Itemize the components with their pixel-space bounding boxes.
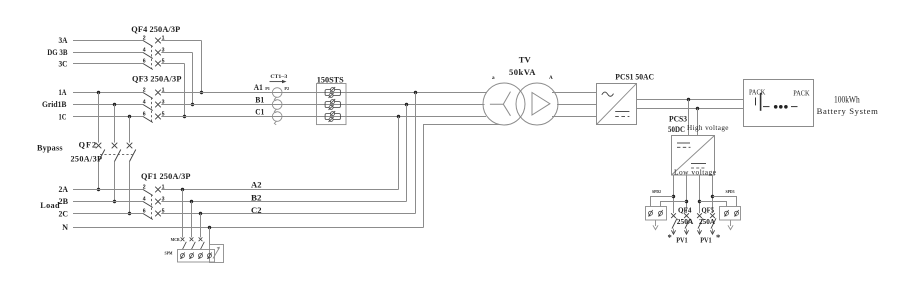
svg-text:3: 3 xyxy=(162,196,165,202)
svg-text:5: 5 xyxy=(162,111,165,117)
breaker QF1 link (dashed) xyxy=(151,195,153,219)
wire 3B left segment xyxy=(73,52,143,54)
wire 3A left segment xyxy=(73,40,143,42)
wire DC- drop to PCS3 xyxy=(697,109,699,136)
svg-text:2: 2 xyxy=(143,87,146,93)
wire 1B left segment xyxy=(73,104,143,106)
breaker QF4 link (dashed) xyxy=(151,46,153,69)
svg-text:6: 6 xyxy=(143,208,146,214)
svg-text:QF4: QF4 xyxy=(678,206,692,214)
PV feeder 3 with breaker pole and arrow xyxy=(697,175,703,234)
wire xfmr-PCS1 A xyxy=(552,92,597,94)
breaker QF1 pole 2-1 xyxy=(143,184,165,195)
wire SPD3 terminal 2 xyxy=(700,202,727,207)
svg-text:SPD2: SPD2 xyxy=(652,190,661,194)
svg-text:a: a xyxy=(492,75,495,81)
svg-text:C2: C2 xyxy=(251,206,262,215)
svg-text:QF2: QF2 xyxy=(79,141,97,150)
wire 1A left segment xyxy=(73,92,143,94)
junction bypass tap on 1C xyxy=(128,115,131,118)
earthing box xyxy=(210,245,224,263)
svg-text:PCS3: PCS3 xyxy=(669,114,687,123)
wire N drop to earth box xyxy=(209,228,211,245)
svg-text:1C: 1C xyxy=(59,113,67,122)
wire xfmr-PCS1 C xyxy=(552,116,597,118)
breaker QF3 pole 4-3 xyxy=(143,99,165,110)
breaker QF3 pole 6-5 xyxy=(143,111,165,122)
wire SPD3 terminal 1 xyxy=(713,197,737,207)
wire SPD2 terminal 2 xyxy=(661,202,687,207)
junction bypass tap on 1A xyxy=(97,91,100,94)
breaker QF4 pole 6-5 xyxy=(143,58,165,69)
junction tap on 1C xyxy=(397,115,400,118)
STS box xyxy=(317,84,347,125)
svg-text:A2: A2 xyxy=(251,180,262,189)
svg-text:SPM: SPM xyxy=(165,252,173,256)
breaker QF4 pole 2-1 xyxy=(143,35,165,46)
wire SPD2 terminal 1 xyxy=(651,197,674,207)
breaker QF2 link (dashed) xyxy=(100,154,133,156)
breaker QF2 pole 2 (vertical) xyxy=(112,105,121,204)
battery cell symbol xyxy=(756,93,770,111)
svg-text:P2: P2 xyxy=(284,86,289,91)
svg-text:3C: 3C xyxy=(59,59,68,68)
svg-text:*: * xyxy=(668,232,672,242)
svg-text:Battery System: Battery System xyxy=(817,106,879,116)
SPD3 box with arresters xyxy=(720,207,741,221)
wire QF4 drop A xyxy=(201,41,203,93)
wire 1C after QF3 to transformer xyxy=(161,116,486,118)
CT on phase B xyxy=(272,100,282,113)
battery box xyxy=(744,80,814,127)
svg-text:PCS1 50AC: PCS1 50AC xyxy=(615,72,654,81)
svg-text:P1: P1 xyxy=(265,86,270,91)
svg-text:B1: B1 xyxy=(255,95,264,104)
junction DC+ tap xyxy=(687,98,690,101)
svg-text:2C: 2C xyxy=(59,209,69,218)
svg-text:3: 3 xyxy=(162,99,165,105)
svg-text:4: 4 xyxy=(143,99,146,105)
CT on phase A xyxy=(272,88,282,101)
wire drop from 1A to 2C end xyxy=(415,93,417,214)
svg-text:N: N xyxy=(62,223,68,232)
junction QF4-B on 1B xyxy=(191,103,194,106)
wire neutral riser from transformer to N xyxy=(424,125,501,228)
svg-text:PV1: PV1 xyxy=(676,235,688,244)
ground arrow below SPD3 xyxy=(728,220,733,230)
wire 2A after QF1 xyxy=(161,189,398,191)
junction tap on 1B xyxy=(405,103,408,106)
wire 2C after QF1 xyxy=(161,213,415,215)
wire 2B after QF1 xyxy=(161,201,406,203)
wire QF4 drop C xyxy=(184,64,186,117)
svg-text:SPD3: SPD3 xyxy=(726,190,735,194)
wire 2C left segment xyxy=(73,213,143,215)
svg-text:3A: 3A xyxy=(59,36,68,45)
svg-text:2: 2 xyxy=(143,184,146,190)
junction QF4-A on 1A xyxy=(200,91,203,94)
svg-text:6: 6 xyxy=(143,58,146,64)
svg-text:6: 6 xyxy=(143,111,146,117)
svg-text:50kVA: 50kVA xyxy=(509,67,536,77)
svg-text:MCB: MCB xyxy=(171,238,180,242)
wire QF4 drop B xyxy=(192,53,194,105)
junction bypass tap on 1B xyxy=(113,103,116,106)
battery end dash xyxy=(791,106,798,108)
transformer TV primary circle (wye) xyxy=(483,83,525,125)
PV feeder 4 with breaker pole and arrow xyxy=(710,175,716,234)
svg-text:High voltage: High voltage xyxy=(687,124,729,132)
PV feeder 1 with breaker pole and arrow xyxy=(671,175,677,234)
svg-text:4: 4 xyxy=(143,47,146,53)
svg-text:PACK: PACK xyxy=(793,88,810,97)
svg-text:2: 2 xyxy=(143,35,146,41)
transformer TV secondary circle (delta) xyxy=(516,83,558,125)
svg-text:QF4 250A/3P: QF4 250A/3P xyxy=(131,25,180,34)
wire 2A left segment xyxy=(73,189,143,191)
breaker QF3 link (dashed) xyxy=(151,98,153,122)
svg-text:QF1 250A/3P: QF1 250A/3P xyxy=(141,172,191,181)
wire xfmr-PCS1 B xyxy=(557,104,597,106)
wire QF4 out C to corner xyxy=(161,63,184,65)
breaker QF3 pole 2-1 xyxy=(143,87,165,98)
svg-text:2A: 2A xyxy=(59,185,69,194)
wire DC+ drop to PCS3 xyxy=(688,100,690,136)
MCB pole 3 from load phase xyxy=(199,212,205,250)
converter PCS3 box xyxy=(672,136,715,176)
wire 3C left segment xyxy=(73,63,143,65)
svg-text:PACK: PACK xyxy=(749,87,766,96)
svg-text:Low voltage: Low voltage xyxy=(674,168,717,177)
svg-text:4: 4 xyxy=(143,196,146,202)
wire DC+ PCS1 to battery xyxy=(637,99,744,101)
wire drop from 1B to 2B end xyxy=(406,105,408,202)
svg-text:250A/3P: 250A/3P xyxy=(71,154,103,163)
wire 1B after QF3 to transformer xyxy=(161,104,484,106)
CT on phase C xyxy=(272,112,282,125)
wire QF4 out B to corner xyxy=(161,52,192,54)
svg-text:TV: TV xyxy=(519,55,532,65)
svg-text:A: A xyxy=(549,75,553,81)
svg-text:1: 1 xyxy=(162,87,165,93)
STS thyristor pair phase A xyxy=(325,87,340,98)
svg-text:Load: Load xyxy=(40,201,60,210)
MCB pole 2 from load phase xyxy=(190,200,196,250)
wire 2B left segment xyxy=(73,201,143,203)
MCB pole 1 from load phase xyxy=(181,188,187,250)
svg-text:PV1: PV1 xyxy=(700,235,712,244)
wire 1C left segment xyxy=(73,116,143,118)
junction tap on 1A xyxy=(414,91,417,94)
svg-text:250A: 250A xyxy=(699,218,716,226)
svg-text:2B: 2B xyxy=(59,197,69,206)
junction N tap xyxy=(208,226,211,229)
svg-text:5: 5 xyxy=(162,208,165,214)
converter PCS1 box xyxy=(597,84,637,125)
breaker QF2 pole 1 (vertical) xyxy=(96,93,105,192)
svg-text:C1: C1 xyxy=(255,108,264,117)
svg-text:QF3 250A/3P: QF3 250A/3P xyxy=(132,74,181,83)
breaker QF2 pole 3 (vertical) xyxy=(127,117,136,216)
wire 1A after QF3 to transformer xyxy=(161,92,487,94)
svg-text:CT1~3: CT1~3 xyxy=(270,74,287,80)
svg-text:Bypass: Bypass xyxy=(37,143,63,152)
breaker QF1 pole 4-3 xyxy=(143,196,165,207)
breaker QF1 pole 6-5 xyxy=(143,208,165,219)
svg-text:250A: 250A xyxy=(677,218,694,226)
CT P1-P2 arrow xyxy=(270,80,287,83)
SPM box with arresters xyxy=(178,250,215,263)
earth arrow in earthing box xyxy=(213,247,220,259)
junction QF4-C on 1C xyxy=(183,115,186,118)
SPD2 box with arresters xyxy=(646,207,667,221)
breaker QF4 pole 4-3 xyxy=(143,47,165,58)
svg-text:QF5: QF5 xyxy=(702,206,715,214)
svg-text:*: * xyxy=(716,232,720,242)
svg-text:B2: B2 xyxy=(251,194,262,203)
junction DC- tap xyxy=(696,107,699,110)
wire drop from 1C to 2A end xyxy=(398,117,400,190)
STS thyristor pair phase C xyxy=(325,111,340,122)
svg-text:50DC: 50DC xyxy=(668,125,685,134)
svg-text:DG 3B: DG 3B xyxy=(47,48,68,57)
wire DC- PCS1 to battery xyxy=(637,108,744,110)
svg-text:1: 1 xyxy=(162,184,165,190)
ground arrow below SPD2 xyxy=(653,220,658,230)
svg-text:Grid1B: Grid1B xyxy=(42,100,67,109)
STS thyristor pair phase B xyxy=(325,99,340,110)
svg-text:1A: 1A xyxy=(59,88,67,97)
wire N full segment xyxy=(73,227,424,229)
wire QF4 out A to corner xyxy=(161,40,201,42)
svg-text:A1: A1 xyxy=(254,83,263,92)
svg-text:100kWh: 100kWh xyxy=(834,94,860,104)
PV feeder 2 with breaker pole and arrow xyxy=(684,175,690,234)
battery continuation dots xyxy=(774,105,788,109)
